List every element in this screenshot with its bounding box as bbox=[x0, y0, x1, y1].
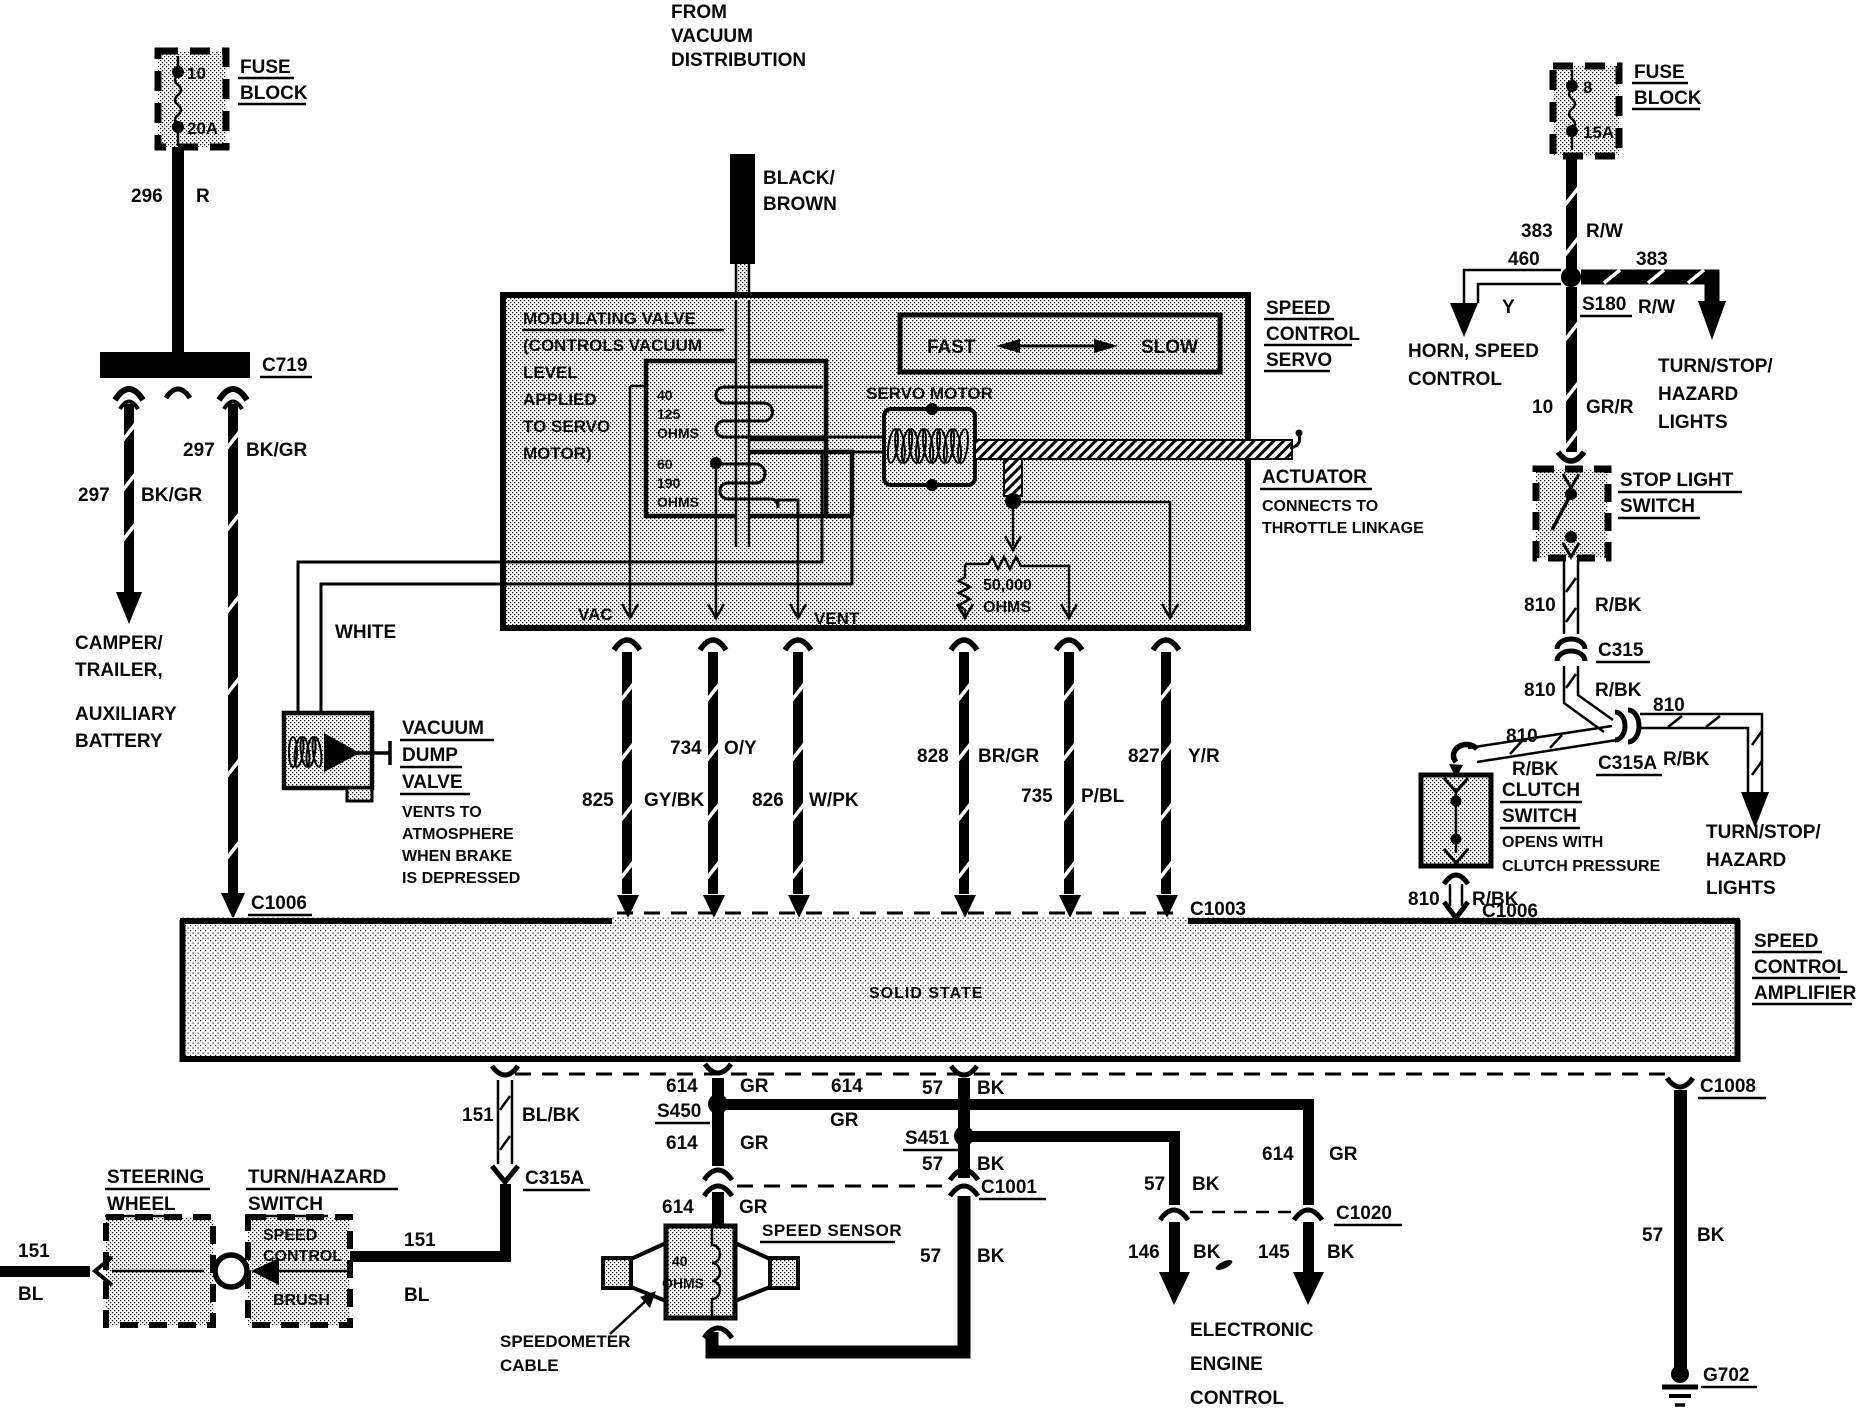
svg-text:TURN/HAZARD: TURN/HAZARD bbox=[248, 1167, 386, 1188]
svg-text:614: 614 bbox=[1262, 1144, 1294, 1165]
svg-text:C1006: C1006 bbox=[251, 893, 307, 914]
svg-text:BK: BK bbox=[1192, 1174, 1220, 1195]
label 826 W/PK bbox=[752, 790, 859, 811]
label TURN/STOP/ HAZARD LIGHTS (upper) bbox=[1658, 356, 1773, 433]
svg-text:OHMS: OHMS bbox=[983, 599, 1031, 616]
svg-text:SPEED: SPEED bbox=[1266, 298, 1330, 319]
label 810 R/BK (to C1006) bbox=[1408, 889, 1519, 910]
label VACUUM DUMP VALVE bbox=[400, 718, 494, 794]
svg-text:C719: C719 bbox=[262, 355, 307, 376]
white vacuum hose to dump valve bbox=[298, 562, 503, 713]
label SPEED SENSOR bbox=[760, 1221, 902, 1242]
connector C1020 chevrons bbox=[1160, 1210, 1322, 1220]
svg-text:LEVEL: LEVEL bbox=[523, 363, 578, 382]
label 460 Y bbox=[1502, 249, 1540, 318]
wire 383 R/W to turn/stop lights bbox=[1581, 270, 1726, 340]
svg-text:810: 810 bbox=[1653, 695, 1685, 716]
wire 614 GR from amplifier bbox=[705, 1064, 731, 1098]
svg-text:SWITCH: SWITCH bbox=[248, 1194, 323, 1215]
svg-text:C1001: C1001 bbox=[981, 1177, 1037, 1198]
svg-text:CONTROL: CONTROL bbox=[1754, 957, 1848, 978]
svg-text:CAMPER/: CAMPER/ bbox=[75, 633, 163, 654]
label C1003 bbox=[1188, 899, 1252, 921]
wire 826 W/PK bbox=[785, 640, 811, 918]
svg-text:SPEED: SPEED bbox=[263, 1227, 317, 1244]
svg-text:C315A: C315A bbox=[1598, 753, 1657, 774]
svg-text:190: 190 bbox=[657, 475, 681, 491]
label C315 bbox=[1596, 640, 1650, 662]
svg-text:R/W: R/W bbox=[1638, 297, 1675, 318]
label 828 BR/GR bbox=[917, 746, 1040, 767]
svg-text:BK: BK bbox=[977, 1154, 1005, 1175]
svg-text:460: 460 bbox=[1508, 249, 1540, 270]
svg-text:BK: BK bbox=[977, 1246, 1005, 1267]
svg-text:Y: Y bbox=[1502, 297, 1515, 318]
connector C719 bus bar bbox=[100, 352, 250, 409]
label 614 GR (second) bbox=[666, 1133, 769, 1154]
junction dot (coil tap) bbox=[710, 457, 722, 469]
svg-text:828: 828 bbox=[917, 746, 949, 767]
label 40 OHMS (sensor) bbox=[662, 1253, 704, 1291]
svg-text:BLOCK: BLOCK bbox=[1634, 88, 1702, 109]
svg-text:C315A: C315A bbox=[525, 1168, 584, 1189]
svg-text:HORN, SPEED: HORN, SPEED bbox=[1408, 341, 1539, 362]
svg-text:SOLID STATE: SOLID STATE bbox=[869, 985, 983, 1002]
svg-text:145: 145 bbox=[1258, 1242, 1290, 1263]
svg-text:810: 810 bbox=[1506, 726, 1538, 747]
svg-text:810: 810 bbox=[1408, 889, 1440, 910]
label C315A (right column) bbox=[1596, 753, 1662, 775]
label 57 BK (return) bbox=[920, 1246, 1005, 1267]
svg-text:R/BK: R/BK bbox=[1595, 595, 1642, 616]
fuse block (left) bbox=[158, 51, 226, 147]
svg-text:ATMOSPHERE: ATMOSPHERE bbox=[402, 826, 514, 843]
label SPEED CONTROL (in switch) bbox=[263, 1227, 342, 1265]
chamber divider bbox=[748, 437, 826, 442]
svg-text:BLOCK: BLOCK bbox=[240, 83, 308, 104]
svg-text:SWITCH: SWITCH bbox=[1502, 806, 1577, 827]
label 57 BK (first) bbox=[922, 1078, 1005, 1099]
svg-text:735: 735 bbox=[1021, 786, 1053, 807]
wire 151 BL/BK bbox=[492, 1066, 518, 1182]
svg-text:R/W: R/W bbox=[1586, 221, 1623, 242]
vacuum tube into servo bbox=[736, 264, 749, 300]
label STEERING WHEEL bbox=[105, 1167, 210, 1216]
svg-text:BK: BK bbox=[1327, 1242, 1355, 1263]
svg-text:827: 827 bbox=[1128, 746, 1160, 767]
svg-text:57: 57 bbox=[922, 1078, 943, 1099]
svg-text:CLUTCH: CLUTCH bbox=[1502, 780, 1580, 801]
svg-text:826: 826 bbox=[752, 790, 784, 811]
svg-text:383: 383 bbox=[1636, 249, 1668, 270]
svg-text:G702: G702 bbox=[1703, 1365, 1749, 1386]
wire 57 BK S451 to engine control bbox=[964, 1131, 1180, 1205]
resistor 50,000 ohms bbox=[957, 557, 1077, 618]
wire 383 R/W from fuse bbox=[1565, 156, 1579, 272]
label CAMPER/TRAILER, AUXILIARY BATTERY bbox=[75, 633, 177, 752]
label 10 GR/R bbox=[1532, 397, 1634, 418]
svg-text:S450: S450 bbox=[657, 1101, 701, 1122]
svg-text:(CONTROLS VACUUM: (CONTROLS VACUUM bbox=[523, 336, 702, 355]
speed control amplifier box bbox=[180, 917, 1740, 1060]
wire 460 Y to horn bbox=[1450, 270, 1561, 337]
splice S180 bbox=[1561, 267, 1581, 287]
svg-text:WHEN BRAKE: WHEN BRAKE bbox=[402, 848, 513, 865]
svg-text:VACUUM: VACUUM bbox=[402, 718, 484, 739]
vacuum tube to servo motor bbox=[503, 452, 886, 584]
wire 297 BK/GR to amplifier C1006 bbox=[221, 404, 245, 919]
lower chamber extension bbox=[748, 452, 852, 516]
vent passage VENT bbox=[790, 516, 806, 618]
svg-text:THROTTLE LINKAGE: THROTTLE LINKAGE bbox=[1262, 520, 1424, 537]
label MODULATING VALVE (CONTROLS VACUUM LEVEL APPLIED TO SERVO MOTOR) bbox=[522, 309, 724, 463]
svg-text:CONNECTS TO: CONNECTS TO bbox=[1262, 498, 1378, 515]
label 614 GR (third) bbox=[662, 1197, 768, 1218]
brush contact ring bbox=[215, 1255, 247, 1287]
vacuum hose black/brown bbox=[730, 154, 755, 264]
label 810 R/BK (middle) bbox=[1524, 680, 1642, 701]
svg-text:W/PK: W/PK bbox=[809, 790, 859, 811]
label CLUTCH SWITCH bbox=[1500, 780, 1582, 828]
label G702 bbox=[1701, 1365, 1757, 1387]
label 827 Y/R bbox=[1128, 746, 1220, 767]
svg-text:STOP LIGHT: STOP LIGHT bbox=[1620, 470, 1734, 491]
label TURN/STOP/ HAZARD LIGHTS (lower) bbox=[1706, 822, 1821, 899]
vacuum tube through valve bbox=[736, 300, 749, 547]
wire through steering wheel bbox=[95, 1257, 204, 1285]
wire 810 R/BK to amplifier C1006 bbox=[1444, 875, 1468, 918]
wire 146 BK arrow bbox=[1159, 1222, 1190, 1305]
svg-text:GR: GR bbox=[740, 1076, 769, 1097]
label SPEED CONTROL AMPLIFIER bbox=[1752, 931, 1857, 1004]
label 297 BK/GR (to C1006) bbox=[183, 440, 308, 461]
svg-text:OHMS: OHMS bbox=[662, 1275, 704, 1291]
svg-text:BATTERY: BATTERY bbox=[75, 731, 163, 752]
svg-text:SWITCH: SWITCH bbox=[1620, 496, 1695, 517]
svg-text:57: 57 bbox=[1144, 1174, 1165, 1195]
svg-text:C1003: C1003 bbox=[1190, 899, 1246, 920]
svg-text:APPLIED: APPLIED bbox=[523, 390, 597, 409]
svg-text:S451: S451 bbox=[905, 1128, 950, 1149]
fuse 15A symbol bbox=[1566, 70, 1578, 150]
svg-text:BK/GR: BK/GR bbox=[141, 485, 203, 506]
svg-text:C1008: C1008 bbox=[1700, 1076, 1756, 1097]
svg-text:O/Y: O/Y bbox=[724, 738, 757, 759]
label 735 P/BL bbox=[1021, 786, 1125, 807]
label 810 R/BK (upper) bbox=[1524, 595, 1642, 616]
svg-text:SLOW: SLOW bbox=[1141, 337, 1198, 358]
svg-text:OHMS: OHMS bbox=[657, 425, 699, 441]
fuse 20A symbol bbox=[172, 56, 184, 146]
label 40 125 OHMS bbox=[657, 387, 699, 441]
label ELECTRONIC ENGINE CONTROL bbox=[1190, 1320, 1314, 1408]
label 145 BK bbox=[1258, 1242, 1355, 1263]
label C1006 (left) bbox=[248, 893, 312, 915]
svg-text:DUMP: DUMP bbox=[402, 745, 458, 766]
label FUSE BLOCK (left) bbox=[238, 57, 308, 104]
svg-text:GR/R: GR/R bbox=[1586, 397, 1634, 418]
label VENTS TO ATMOSPHERE WHEN BRAKE IS DEPRESSED bbox=[402, 804, 520, 887]
connector C315 bbox=[1557, 639, 1585, 661]
dashed line C1020 bbox=[1190, 1211, 1292, 1214]
svg-text:OHMS: OHMS bbox=[657, 494, 699, 510]
svg-text:BRUSH: BRUSH bbox=[273, 1292, 330, 1309]
turn/hazard switch box bbox=[248, 1217, 350, 1325]
svg-text:CABLE: CABLE bbox=[500, 1356, 559, 1375]
fuse block (right) bbox=[1553, 66, 1619, 156]
svg-text:57: 57 bbox=[920, 1246, 941, 1267]
svg-text:VENT: VENT bbox=[814, 609, 860, 628]
svg-text:SPEED: SPEED bbox=[1754, 931, 1818, 952]
svg-text:SERVO MOTOR: SERVO MOTOR bbox=[866, 384, 993, 403]
svg-text:825: 825 bbox=[582, 790, 614, 811]
label 151 BL (right of switch) bbox=[404, 1230, 436, 1306]
label 614 GR (branch) bbox=[1262, 1144, 1358, 1165]
speed control servo box bbox=[503, 295, 1248, 628]
label 57 BK (branch) bbox=[1144, 1174, 1220, 1195]
wire from actuator tap to terminal 827 bbox=[1013, 502, 1178, 618]
wire 810 R/BK to turn/stop lights bbox=[1640, 714, 1769, 828]
svg-text:R/BK: R/BK bbox=[1512, 759, 1559, 780]
svg-text:GR: GR bbox=[830, 1110, 859, 1131]
svg-text:WHITE: WHITE bbox=[335, 622, 396, 643]
splice S451 bbox=[954, 1126, 974, 1146]
label SPEEDOMETER CABLE bbox=[500, 1332, 630, 1375]
svg-text:614: 614 bbox=[662, 1197, 694, 1218]
sensor coil bbox=[712, 1226, 720, 1318]
wire 296 R bbox=[172, 147, 184, 355]
svg-text:40: 40 bbox=[657, 387, 673, 403]
label 60 190 OHMS bbox=[657, 456, 699, 510]
label 734 O/Y bbox=[670, 738, 757, 759]
svg-text:IS DEPRESSED: IS DEPRESSED bbox=[402, 870, 520, 887]
speed sensor body bbox=[603, 1226, 798, 1318]
svg-text:296: 296 bbox=[131, 186, 163, 207]
svg-text:BR/GR: BR/GR bbox=[978, 746, 1040, 767]
svg-text:LIGHTS: LIGHTS bbox=[1706, 878, 1776, 899]
wire 57 BK from amplifier bbox=[951, 1066, 977, 1132]
modulating valve chamber box bbox=[646, 361, 826, 516]
svg-text:FUSE: FUSE bbox=[240, 57, 291, 78]
svg-text:734: 734 bbox=[670, 738, 702, 759]
svg-text:STEERING: STEERING bbox=[107, 1167, 204, 1188]
wire 614 GR S450 to S451 crossing bbox=[718, 1099, 1314, 1110]
label S450 bbox=[655, 1101, 710, 1123]
wire 810 R/BK below stop light switch bbox=[1564, 560, 1578, 634]
label S180 bbox=[1580, 294, 1632, 316]
wire 810 R/BK below C315 bbox=[1564, 666, 1613, 732]
svg-text:C315: C315 bbox=[1598, 640, 1644, 661]
label C1008 bbox=[1698, 1076, 1766, 1098]
svg-text:MOTOR): MOTOR) bbox=[523, 444, 592, 463]
wire 827 Y/R bbox=[1153, 640, 1179, 918]
svg-text:151: 151 bbox=[18, 1241, 50, 1262]
svg-text:ACTUATOR: ACTUATOR bbox=[1262, 467, 1367, 488]
connector chevrons above speed sensor bbox=[704, 1170, 732, 1226]
label 57 BK (second) bbox=[922, 1154, 1005, 1175]
label 151 BL/BK bbox=[462, 1105, 580, 1126]
steering wheel box bbox=[106, 1217, 213, 1325]
svg-text:AMPLIFIER: AMPLIFIER bbox=[1754, 983, 1857, 1004]
svg-text:CONTROL: CONTROL bbox=[1190, 1388, 1284, 1408]
label 825 GY/BK bbox=[582, 790, 704, 811]
label 383 R/W bbox=[1521, 221, 1623, 242]
svg-text:60: 60 bbox=[657, 456, 673, 472]
wire 614 GR below S450 bbox=[712, 1110, 724, 1166]
svg-text:TO SERVO: TO SERVO bbox=[523, 417, 610, 436]
brush contact dot bbox=[204, 1265, 217, 1278]
svg-text:C1006: C1006 bbox=[1482, 901, 1538, 922]
svg-text:SERVO: SERVO bbox=[1266, 350, 1332, 371]
label SPEED CONTROL SERVO bbox=[1264, 298, 1360, 371]
svg-text:151: 151 bbox=[404, 1230, 436, 1251]
wire 734 O/Y bbox=[700, 640, 726, 918]
label FROM VACUUM DISTRIBUTION bbox=[671, 2, 806, 71]
label HORN, SPEED CONTROL bbox=[1408, 341, 1539, 390]
svg-text:10: 10 bbox=[1532, 397, 1553, 418]
wire 57 BK to ground bbox=[1667, 1078, 1693, 1368]
svg-text:20A: 20A bbox=[187, 119, 218, 138]
svg-text:810: 810 bbox=[1524, 595, 1556, 616]
label C1020 bbox=[1334, 1203, 1402, 1225]
svg-text:DISTRIBUTION: DISTRIBUTION bbox=[671, 50, 806, 71]
svg-text:10: 10 bbox=[187, 64, 206, 83]
label 297 BK/GR (camper) bbox=[78, 485, 203, 506]
splice S450 bbox=[708, 1094, 728, 1114]
svg-text:BROWN: BROWN bbox=[763, 194, 837, 215]
svg-text:P/BL: P/BL bbox=[1081, 786, 1125, 807]
svg-text:R/BK: R/BK bbox=[1595, 680, 1642, 701]
coil 40-125 ohms bbox=[716, 387, 884, 437]
svg-text:CLUTCH PRESSURE: CLUTCH PRESSURE bbox=[1502, 858, 1661, 875]
svg-text:ENGINE: ENGINE bbox=[1190, 1354, 1263, 1375]
wire 145 BK arrow bbox=[1293, 1222, 1324, 1305]
svg-text:CONTROL: CONTROL bbox=[1266, 324, 1360, 345]
svg-text:383: 383 bbox=[1521, 221, 1553, 242]
label C1006 (right) bbox=[1480, 901, 1544, 923]
label BLACK/BROWN bbox=[763, 168, 837, 215]
svg-text:VENTS TO: VENTS TO bbox=[402, 804, 482, 821]
svg-text:C1020: C1020 bbox=[1336, 1203, 1392, 1224]
stop light switch bbox=[1536, 469, 1608, 558]
svg-text:VALVE: VALVE bbox=[402, 772, 463, 793]
svg-text:146: 146 bbox=[1128, 1242, 1160, 1263]
vacuum dump valve bbox=[284, 713, 390, 801]
svg-text:BK: BK bbox=[1193, 1242, 1221, 1263]
svg-text:GR: GR bbox=[740, 1133, 769, 1154]
coil 60-190 ohms bbox=[716, 464, 798, 516]
connector C1001 chevrons bbox=[950, 1170, 978, 1196]
dashed connector line C1003 bbox=[617, 912, 1184, 915]
svg-text:40: 40 bbox=[672, 1253, 688, 1269]
wire 10 GR/R bbox=[1558, 287, 1584, 461]
label FUSE BLOCK (right) bbox=[1632, 62, 1702, 109]
connector C315A (right column) bbox=[1615, 710, 1639, 742]
svg-text:HAZARD: HAZARD bbox=[1658, 384, 1738, 405]
wire 151 BL to turn/hazard switch bbox=[350, 1184, 511, 1262]
svg-text:BLACK/: BLACK/ bbox=[763, 168, 835, 189]
svg-text:R: R bbox=[196, 186, 210, 207]
label 151 BL (left) bbox=[18, 1241, 50, 1305]
wire 825 GY/BK bbox=[614, 640, 640, 918]
svg-text:BL: BL bbox=[404, 1285, 430, 1306]
svg-text:LIGHTS: LIGHTS bbox=[1658, 412, 1728, 433]
svg-text:TURN/STOP/: TURN/STOP/ bbox=[1658, 356, 1773, 377]
svg-text:FAST: FAST bbox=[927, 337, 976, 358]
wire 614 GR to engine control bbox=[1303, 1099, 1314, 1205]
svg-text:SPEED SENSOR: SPEED SENSOR bbox=[762, 1221, 902, 1240]
ground G702 bbox=[1662, 1365, 1698, 1405]
svg-text:OPENS WITH: OPENS WITH bbox=[1502, 834, 1603, 851]
wire 57 BK below S451 bbox=[958, 1140, 970, 1178]
svg-text:BK: BK bbox=[977, 1078, 1005, 1099]
svg-text:Y/R: Y/R bbox=[1188, 746, 1220, 767]
svg-text:GR: GR bbox=[1329, 1144, 1358, 1165]
svg-text:57: 57 bbox=[922, 1154, 943, 1175]
wire from actuator tap to 50,000 ohms bbox=[1005, 508, 1021, 550]
servo motor bbox=[866, 384, 993, 491]
svg-text:MODULATING VALVE: MODULATING VALVE bbox=[523, 309, 696, 328]
FAST/SLOW indicator box bbox=[900, 315, 1220, 372]
wire 735 P/BL bbox=[1056, 640, 1082, 918]
label C719 bbox=[260, 355, 312, 377]
dashed connector line below amplifier bbox=[515, 1073, 1666, 1076]
svg-text:VACUUM: VACUUM bbox=[671, 26, 753, 47]
label ACTUATOR CONNECTS TO THROTTLE LINKAGE bbox=[1260, 467, 1424, 537]
svg-text:50,000: 50,000 bbox=[983, 577, 1032, 594]
svg-text:BK/GR: BK/GR bbox=[246, 440, 308, 461]
clutch switch bbox=[1421, 775, 1491, 866]
svg-text:TURN/STOP/: TURN/STOP/ bbox=[1706, 822, 1821, 843]
svg-text:CONTROL: CONTROL bbox=[1408, 369, 1502, 390]
label 57 BK (ground lead) bbox=[1642, 1225, 1725, 1246]
svg-text:297: 297 bbox=[183, 440, 215, 461]
ink speck bbox=[1214, 1258, 1233, 1272]
svg-text:VAC: VAC bbox=[578, 605, 613, 624]
svg-text:WHEEL: WHEEL bbox=[107, 1194, 176, 1215]
svg-text:TRAILER,: TRAILER, bbox=[75, 660, 163, 681]
brush contact arrow bbox=[251, 1258, 352, 1285]
dashed line to C1001 bbox=[737, 1185, 948, 1188]
label OPENS WITH CLUTCH PRESSURE bbox=[1502, 834, 1661, 875]
svg-text:125: 125 bbox=[657, 406, 681, 422]
svg-text:HAZARD: HAZARD bbox=[1706, 850, 1786, 871]
svg-text:614: 614 bbox=[666, 1133, 698, 1154]
svg-text:57: 57 bbox=[1642, 1225, 1663, 1246]
label 146 BK bbox=[1128, 1242, 1221, 1263]
svg-text:297: 297 bbox=[78, 485, 110, 506]
svg-text:614: 614 bbox=[831, 1076, 863, 1097]
vacuum passage VAC bbox=[622, 386, 646, 618]
svg-text:S180: S180 bbox=[1582, 294, 1626, 315]
label 296 R bbox=[131, 186, 210, 207]
wire 57 BK sensor return bbox=[704, 1196, 964, 1352]
label C1001 bbox=[979, 1177, 1046, 1199]
svg-text:BL: BL bbox=[18, 1284, 44, 1305]
svg-text:AUXILIARY: AUXILIARY bbox=[75, 704, 177, 725]
svg-text:614: 614 bbox=[666, 1076, 698, 1097]
wire 828 BR/GR bbox=[951, 640, 977, 918]
svg-text:GR: GR bbox=[739, 1197, 768, 1218]
label S451 bbox=[903, 1128, 958, 1150]
wire 810 R/BK to clutch switch bbox=[1449, 726, 1617, 778]
label 614 GR (first) bbox=[666, 1076, 769, 1097]
label 50,000 OHMS bbox=[983, 577, 1032, 616]
svg-text:FUSE: FUSE bbox=[1634, 62, 1685, 83]
svg-text:BL/BK: BL/BK bbox=[522, 1105, 580, 1126]
speedometer cable pointer bbox=[610, 1291, 656, 1334]
svg-text:8: 8 bbox=[1583, 78, 1592, 97]
